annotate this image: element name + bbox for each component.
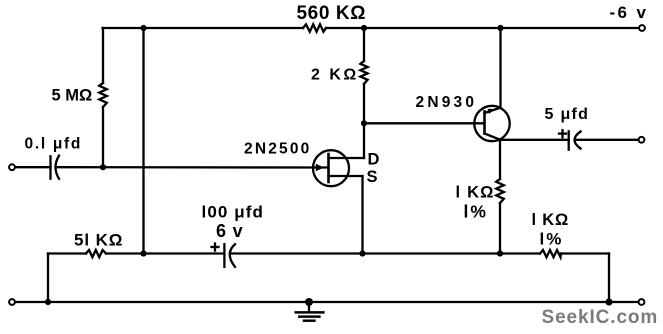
ground bar 3 bbox=[304, 319, 314, 322]
wire middle rail right segment bbox=[561, 252, 609, 254]
wire middle rail start bbox=[48, 252, 86, 254]
svg-text:2 KΩ: 2 KΩ bbox=[311, 67, 359, 84]
capacitor C2 100 ufd curved plate bbox=[230, 244, 235, 267]
plus sign of C3 bbox=[559, 132, 566, 134]
svg-text:560 KΩ: 560 KΩ bbox=[297, 3, 367, 24]
wire base line to Q2 bbox=[364, 122, 484, 124]
svg-text:l%: l% bbox=[464, 202, 488, 222]
wire 2K branch upper bbox=[363, 28, 365, 61]
svg-text:5 MΩ: 5 MΩ bbox=[52, 87, 93, 105]
terminal bottom left bbox=[9, 299, 15, 305]
junction node base / 2K / drain bbox=[361, 120, 367, 126]
wire middle rail cap to 1K resistor bbox=[230, 252, 540, 254]
plus sign of C2 bbox=[212, 246, 219, 248]
svg-text:0.l μfd: 0.l μfd bbox=[25, 135, 83, 152]
terminal input bbox=[9, 164, 15, 170]
wire base node down to drain corner bbox=[363, 123, 365, 158]
junction node on top rail at feedback branch bbox=[140, 25, 146, 31]
resistor R1 560 KΩ zigzag bbox=[303, 24, 326, 31]
junction node bottom rail / right riser bbox=[605, 298, 612, 305]
ground bar 2 bbox=[299, 315, 319, 318]
transistor Q2 emitter diagonal lead bbox=[485, 134, 501, 140]
junction node middle rail / feedback bbox=[140, 250, 146, 256]
svg-text:SeekIC.com: SeekIC.com bbox=[542, 307, 659, 328]
wire bottom rail to output terminal bbox=[609, 301, 639, 303]
wire source drop to middle rail bbox=[361, 176, 363, 254]
svg-text:l%: l% bbox=[540, 230, 564, 249]
terminal -6v bbox=[639, 25, 645, 31]
wire input line left of capacitor bbox=[15, 166, 51, 168]
svg-text:2N2500: 2N2500 bbox=[244, 141, 312, 158]
resistor R4 1 KΩ 1% zigzag bbox=[496, 179, 504, 203]
transistor Q2 base bar bbox=[483, 112, 486, 134]
junction node on top rail at 2K branch bbox=[361, 25, 367, 31]
svg-text:l KΩ: l KΩ bbox=[456, 184, 495, 202]
svg-text:2N930: 2N930 bbox=[416, 94, 478, 111]
resistor R5 51 KΩ zigzag bbox=[86, 250, 106, 257]
svg-text:6 v: 6 v bbox=[216, 221, 243, 241]
svg-text:5 μfd: 5 μfd bbox=[545, 106, 590, 123]
wire drain lead of Q1 bbox=[329, 157, 365, 159]
wire middle rail left riser bbox=[47, 254, 49, 303]
svg-text:-6 v: -6 v bbox=[610, 3, 649, 22]
svg-text:l KΩ: l KΩ bbox=[532, 211, 570, 229]
svg-text:D: D bbox=[368, 151, 380, 169]
wire Q2 top lead to rail bbox=[499, 28, 501, 108]
junction node middle rail / source bbox=[359, 250, 365, 256]
transistor Q1 2N2500 circle bbox=[313, 150, 349, 186]
ground bar 1 bbox=[296, 311, 324, 314]
wire right drop to bottom rail bbox=[608, 254, 610, 303]
ground junction dot bbox=[305, 298, 313, 306]
ground stem bbox=[308, 302, 310, 312]
capacitor C3 5 ufd curved plate bbox=[575, 132, 581, 149]
wire feedback vertical x=143.5 bbox=[142, 28, 144, 254]
arrow of Q1 gate bbox=[316, 164, 324, 172]
resistor R2 5 MΩ zigzag bbox=[99, 83, 107, 107]
svg-text:5l KΩ: 5l KΩ bbox=[74, 231, 123, 250]
transistor Q2 2N930 circle bbox=[474, 106, 509, 141]
terminal output bbox=[639, 137, 645, 143]
transistor Q2 collector diagonal lead bbox=[485, 108, 501, 113]
capacitor C1 0.1 ufd plate bbox=[49, 156, 51, 178]
wire left branch vertical lower bbox=[102, 107, 104, 167]
capacitor C3 5 ufd plate bbox=[568, 131, 570, 149]
wire 2K branch lower to base node bbox=[363, 84, 365, 123]
wire source lead of Q1 bbox=[329, 175, 363, 177]
wire left branch vertical upper bbox=[102, 28, 104, 83]
junction node on top rail at Q2 collector bbox=[497, 25, 503, 31]
transistor Q1 channel bar bbox=[327, 154, 330, 182]
arrow of Q2 collector bbox=[488, 109, 496, 114]
wire emitter drop upper bbox=[499, 140, 501, 179]
wire emitter node to output cap bbox=[500, 139, 568, 141]
resistor R3 2 KΩ zigzag bbox=[360, 61, 367, 84]
junction node bottom rail / 51K riser bbox=[45, 299, 51, 305]
wire middle rail to 100ufd cap bbox=[106, 252, 224, 254]
wire top rail right segment bbox=[326, 27, 639, 29]
capacitor C1 0.1 ufd curved plate bbox=[56, 156, 60, 179]
svg-text:l00 μfd: l00 μfd bbox=[202, 202, 265, 221]
wire top rail left segment bbox=[103, 27, 304, 29]
resistor R6 1 KΩ 1% horizontal zigzag bbox=[540, 250, 561, 257]
junction node input / 5M bbox=[100, 164, 106, 170]
wire output line to terminal bbox=[576, 139, 639, 141]
svg-text:S: S bbox=[367, 168, 378, 186]
capacitor C2 100 ufd plate bbox=[223, 244, 225, 267]
wire input line to JFET gate bbox=[56, 166, 328, 169]
terminal bottom right bbox=[639, 299, 645, 305]
wire bottom rail bbox=[15, 301, 609, 303]
junction node middle rail / emitter resistor bbox=[497, 250, 503, 256]
wire emitter drop lower bbox=[499, 203, 501, 254]
